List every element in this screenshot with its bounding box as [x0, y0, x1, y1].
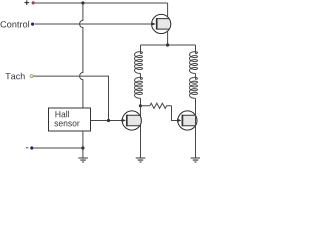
node minus junction	[81, 146, 84, 149]
inductor L2 (left winding lower)	[135, 73, 143, 98]
wire left winding to Q2 and ground	[140, 98, 142, 158]
label Hall	[56, 111, 70, 118]
inductor L4 (right winding lower)	[190, 73, 198, 98]
plus label	[24, 0, 29, 5]
label Control	[1, 21, 30, 28]
wire right winding to Q3 and ground	[195, 98, 197, 158]
transistor Q3	[177, 111, 197, 130]
wire top rail	[35, 2, 168, 4]
ground G3	[191, 158, 201, 162]
resistor R1	[141, 103, 172, 108]
inductor L1 (left winding upper)	[135, 45, 143, 73]
label minus	[26, 147, 28, 149]
wire winding top rail	[141, 44, 196, 46]
terminal Tach (pale yellow)	[30, 75, 33, 78]
Hall sensor box	[49, 108, 91, 131]
terminal Control (blue)	[31, 23, 34, 26]
wire Q1 drain vertical	[167, 3, 169, 45]
label Tach	[5, 73, 24, 80]
node resistor tap	[139, 104, 142, 107]
wire Tach line	[34, 76, 109, 120]
node winding rail	[166, 43, 169, 46]
terminal minus (blue)	[30, 146, 33, 149]
transistor Q2	[122, 111, 142, 130]
wire Control to Q1 base	[35, 23, 152, 25]
wire Hall ground vertical	[82, 131, 84, 158]
wire +12V bus vertical with hops	[80, 3, 83, 108]
inductor L3 (right winding upper)	[190, 45, 198, 73]
transistor Q1	[151, 14, 171, 33]
ground G1	[78, 158, 88, 162]
node Tach/Hall junction	[107, 119, 110, 122]
ground G2	[136, 158, 146, 162]
node top rail / bus junction	[81, 1, 84, 4]
terminal + (red)	[32, 1, 35, 4]
wire Hall output to Q2 base	[91, 120, 122, 122]
label sensor	[54, 121, 79, 126]
wire minus to ground junction	[34, 147, 83, 149]
wire R1 to Q3 base	[172, 106, 178, 121]
